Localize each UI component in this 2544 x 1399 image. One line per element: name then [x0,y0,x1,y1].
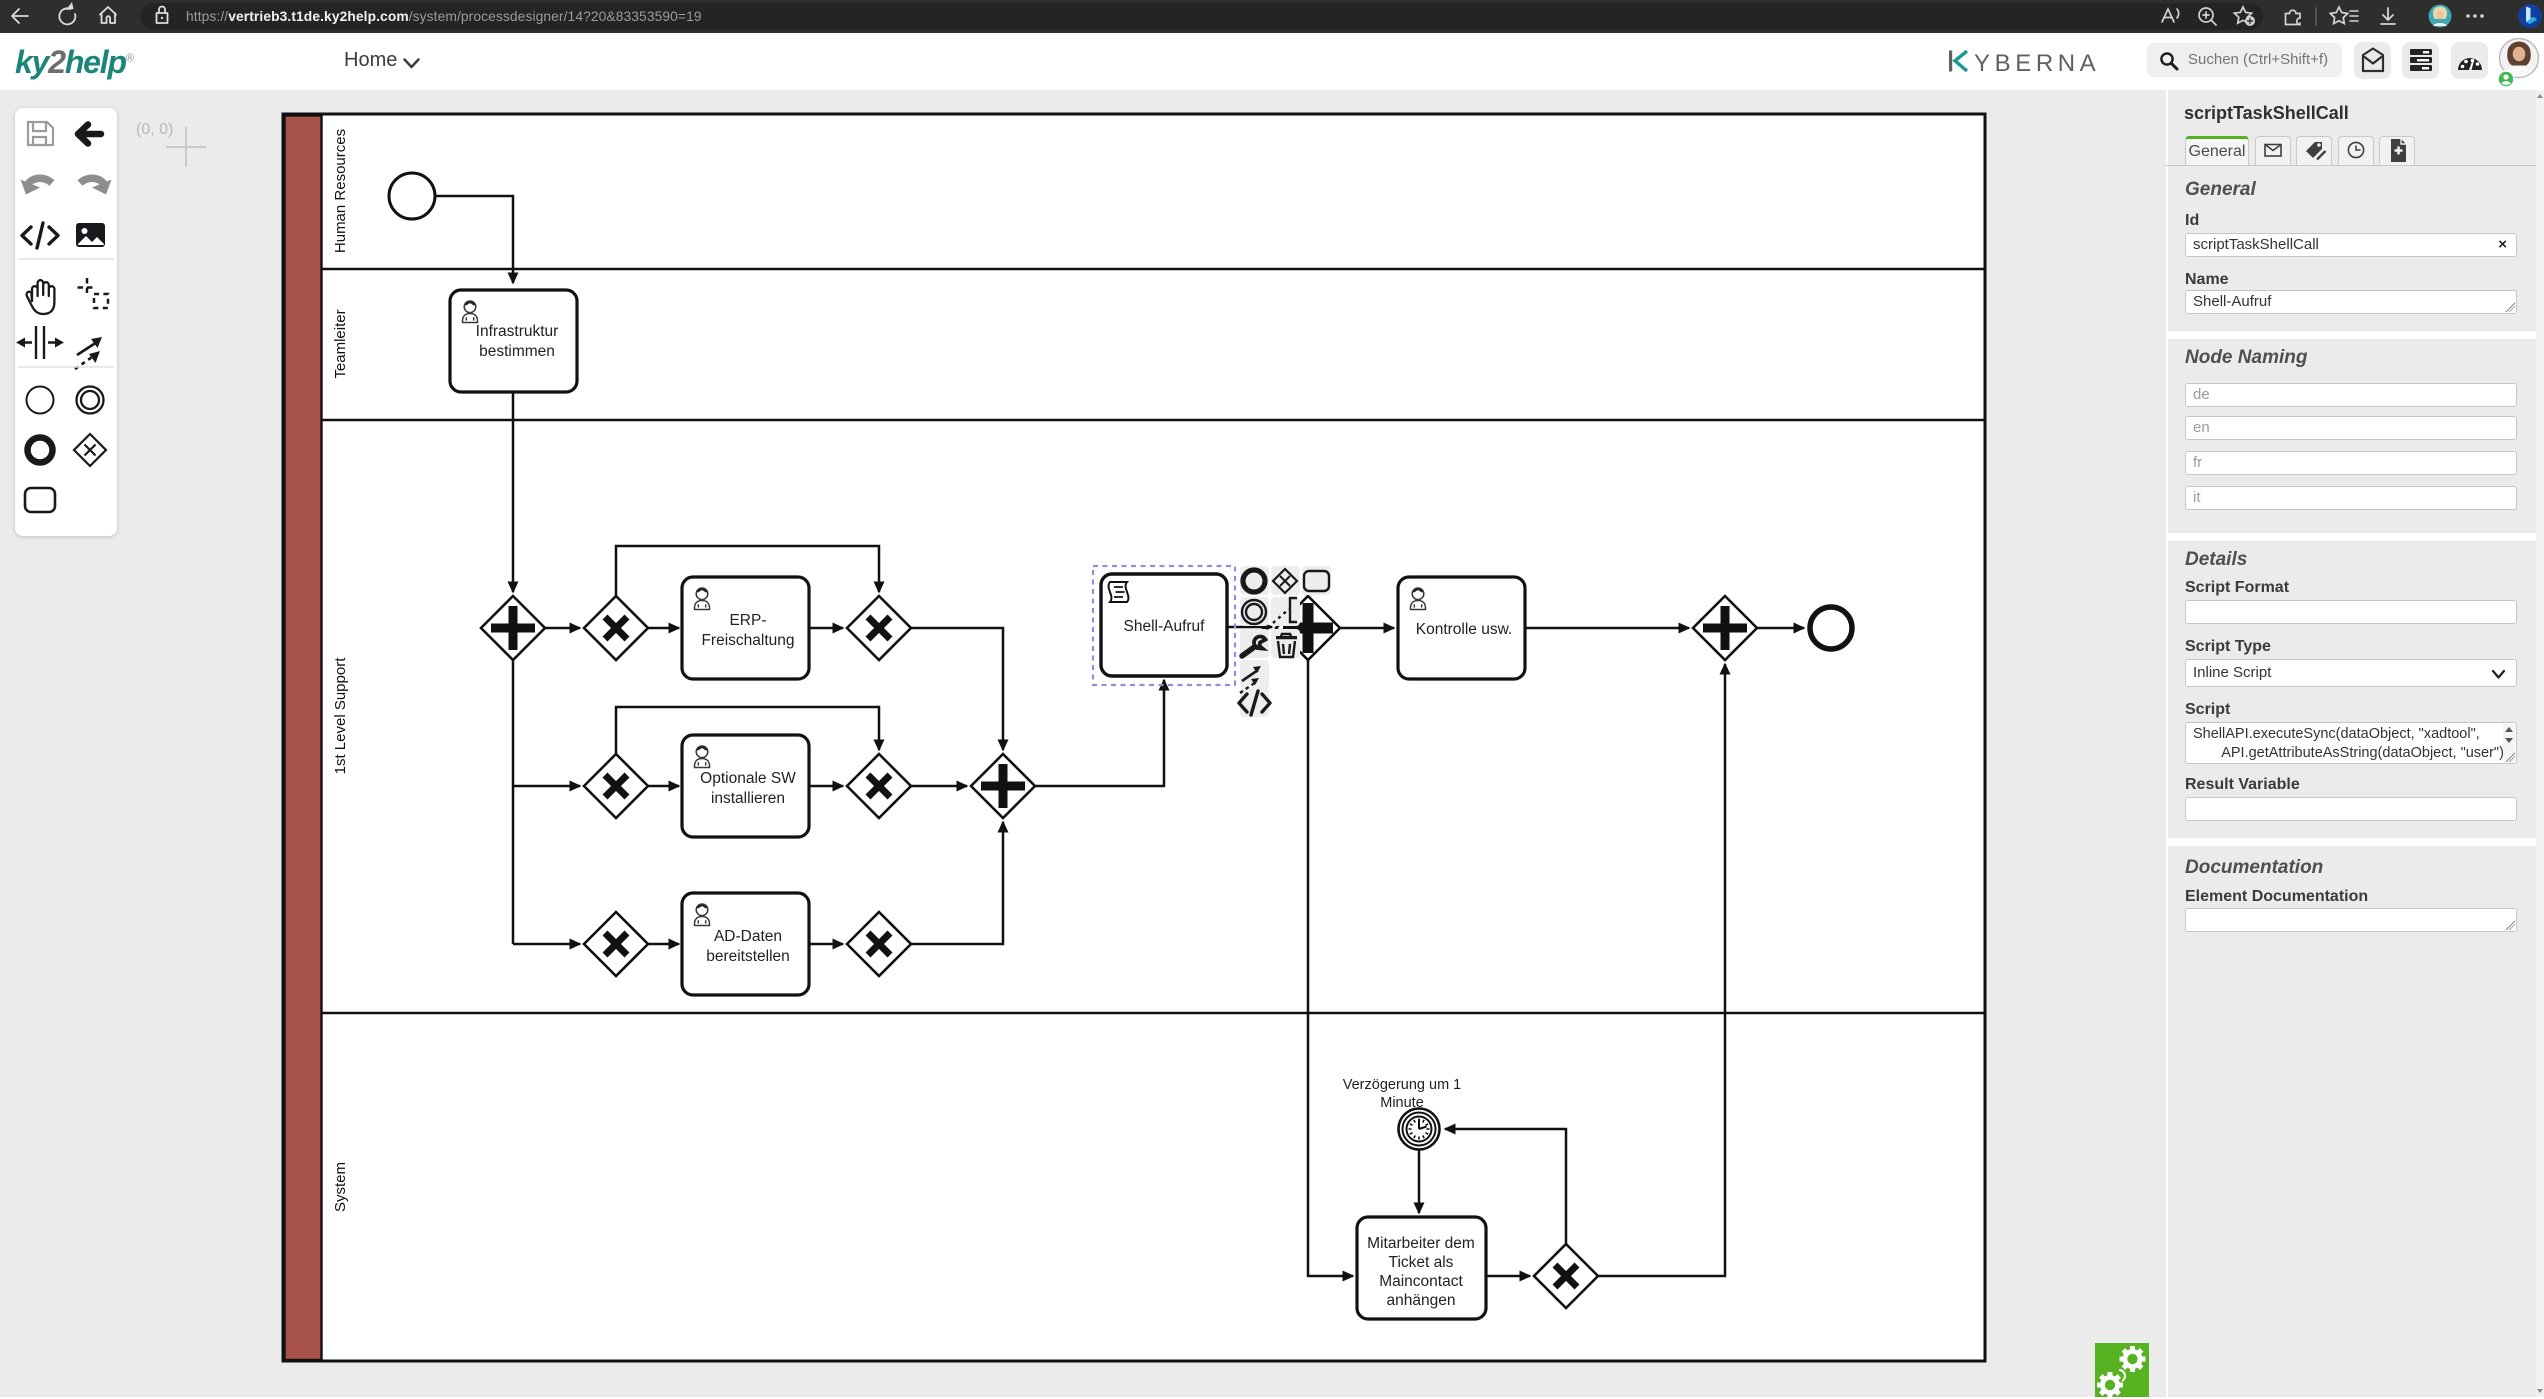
svg-text:1st Level Support: 1st Level Support [332,657,349,775]
ky2help logo [15,44,133,81]
wire G4 to Shell-Aufruf task bottom [1035,680,1164,786]
wire G1 to G2 [545,627,580,630]
task: AD-Daten bereitstellen [682,893,809,995]
pad: script icon [1239,691,1270,715]
svg-text:bestimmen: bestimmen [479,343,555,360]
undo [27,178,52,186]
green kyberna logo bottom right [2095,1343,2149,1399]
gateway G2 X [584,596,648,660]
pad: task icon [1304,571,1329,591]
gateway G9 + [1276,596,1340,660]
svg-text:Mitarbeiter dem: Mitarbeiter dem [1367,1235,1475,1252]
task: ERP-Freischaltung [682,577,809,679]
wire G8 to G4 bottom [911,822,1003,944]
thin circle [27,387,54,414]
task: Kontrolle usw. [1398,577,1525,679]
code icon [22,223,58,248]
gateway G5 X [584,754,648,818]
wire Shell-Aufruf task to G9 [1227,626,1272,629]
back arrow [78,125,101,144]
left toolbar [15,108,117,536]
split icon [24,326,56,359]
context pad tiles [1240,566,1331,717]
end event [1810,607,1852,649]
lane labels [332,129,349,1212]
rounded rect [25,488,55,512]
pad: end event icon [1243,570,1265,592]
wire G9 to Kontrolle task [1340,627,1394,630]
selection rect dashes [1093,566,1235,685]
gateway G6 X [847,754,911,818]
gateway G8 X [847,912,911,976]
BPMN DIAGRAM SVG (page coords shifted by -90 in y) [0,90,2166,1397]
pad: data/bracket icon [1273,609,1289,623]
svg-text:Kontrolle usw.: Kontrolle usw. [1416,621,1513,638]
wire G10 to end event [1757,627,1804,630]
wire AD-Daten task to G8 [809,943,843,946]
svg-text:System: System [332,1162,349,1212]
wire loop G5 top to G6 top [616,707,879,754]
pool red header bar [285,116,322,1361]
wire G5 to Optionale SW task [648,785,679,788]
image icon [76,223,105,247]
diamond X [74,434,106,466]
wire G1 bottom vertical to row3 [512,660,515,944]
pad: association arrows icon [1242,670,1258,681]
thick circle [28,438,53,463]
wire start event to Infrastruktur task [436,196,513,283]
wire branch to G5 [513,785,580,788]
svg-text:anhängen: anhängen [1387,1292,1456,1309]
svg-text:AD-Daten: AD-Daten [714,928,782,945]
redo [80,178,105,186]
start event [389,173,435,219]
wire G6 to G4 left [911,785,967,788]
wire G11 to G10 bottom [1598,664,1725,1276]
avatar [2498,37,2540,89]
arrows icon [75,342,97,369]
wire G3 to G4 top [911,628,1003,750]
wire G7 to AD-Daten task [648,943,679,946]
task: Mitarbeiter dem Ticket als Maincontact anhängen [1357,1217,1486,1319]
svg-text:Maincontact: Maincontact [1379,1273,1463,1290]
svg-text:Freischaltung: Freischaltung [701,632,794,649]
KYBERNA logo [1948,50,1972,72]
double circle [77,387,104,414]
panel scrollbar [2536,90,2544,1397]
script marker on shell task [1109,582,1129,602]
task: Shell-Aufruf (selected) [1101,574,1227,676]
wire timer event to Mitarbeiter task [1418,1150,1421,1213]
save icon [28,122,53,145]
wire ERP task to G3 [809,627,843,630]
gateway G10 + [1693,596,1757,660]
svg-text:Infrastruktur: Infrastruktur [476,323,559,340]
gateway G4 + [971,754,1035,818]
svg-text:Human Resources: Human Resources [332,129,349,253]
gateway G7 X [584,912,648,976]
pool [283,114,1985,1361]
svg-text:Verzögerung um 1: Verzögerung um 1 [1343,1077,1462,1093]
wire Kontrolle task to G10 [1525,627,1689,630]
lane dividers [322,268,1984,270]
hand icon [27,280,55,314]
svg-text:Optionale SW: Optionale SW [700,770,796,787]
task: Infrastruktur bestimmen [450,290,577,392]
header buttons [2354,42,2391,79]
wire G2 to ERP task [648,627,679,630]
pad: intermediate event icon [1242,600,1266,624]
search box [2147,43,2342,77]
wire Optionale SW task to G6 [809,785,843,788]
svg-text:installieren: installieren [711,790,785,807]
timer event [1399,1109,1440,1150]
gateway G3 X [847,596,911,660]
wire Mitarbeiter task to G11 [1486,1275,1530,1278]
Home menu [344,49,397,72]
wire G9 bottom to Mitarbeiter task [1308,660,1353,1276]
gateway G11 X [1534,1244,1598,1308]
wire loop G2 top to G3 top [616,546,879,596]
svg-text:Shell-Aufruf: Shell-Aufruf [1124,618,1206,635]
svg-text:bereitstellen: bereitstellen [706,948,790,965]
pad: trash icon [1276,634,1297,657]
wire Infrastruktur task to gateway G1 [512,392,515,592]
svg-text:Ticket als: Ticket als [1389,1254,1454,1271]
wire branch to G7 [513,943,580,946]
separator [18,366,114,368]
select icon [78,278,109,308]
task: Optionale SW installieren [682,735,809,837]
gateway G1 + [481,596,545,660]
pad: wrench icon [1242,647,1255,657]
pad: gateway icon [1273,569,1297,593]
separator [18,258,114,260]
svg-text:Teamleiter: Teamleiter [332,309,349,378]
svg-text:ERP-: ERP- [729,612,766,629]
wire G11 top to timer event [1445,1129,1566,1244]
